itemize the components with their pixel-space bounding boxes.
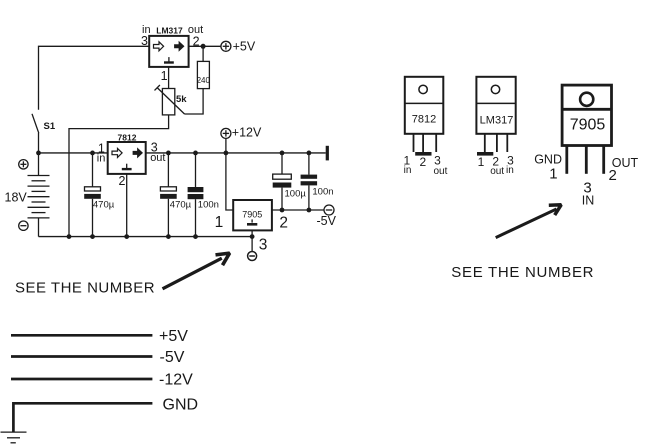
svg-text:+12V: +12V <box>232 126 262 140</box>
wire <box>38 133 40 153</box>
wire GND legend <box>13 403 152 432</box>
svg-text:100n: 100n <box>312 186 333 197</box>
svg-text:3: 3 <box>141 34 148 48</box>
wire -5V legend <box>11 355 152 358</box>
junction <box>36 151 41 156</box>
package 7812 <box>404 77 448 177</box>
junction <box>250 234 255 239</box>
capacitor C5 100n <box>301 153 334 210</box>
wire +5V legend <box>11 334 152 337</box>
wire <box>185 89 204 114</box>
arrow <box>163 253 230 289</box>
svg-text:2: 2 <box>419 155 426 169</box>
regulator U3 7905 <box>215 200 288 254</box>
svg-text:in: in <box>97 152 106 164</box>
junction <box>280 151 285 156</box>
terminal +5V <box>221 40 256 54</box>
package LM317 <box>476 77 515 177</box>
svg-text:out: out <box>490 166 504 177</box>
svg-text:7905: 7905 <box>242 210 262 220</box>
junction <box>124 234 129 239</box>
svg-text:out: out <box>434 166 448 177</box>
wire <box>69 115 169 237</box>
terminal -5V lower <box>248 252 257 261</box>
battery 18V <box>5 153 50 237</box>
junction <box>224 151 229 156</box>
svg-text:in: in <box>404 165 412 176</box>
svg-text:-12V: -12V <box>159 372 193 389</box>
ground <box>1 432 27 443</box>
svg-text:in: in <box>506 165 514 176</box>
resistor 240 <box>197 46 211 88</box>
switch S1 <box>32 114 56 133</box>
svg-text:GND: GND <box>534 153 562 167</box>
package 7905 <box>534 85 638 207</box>
svg-text:7812: 7812 <box>118 133 137 143</box>
wire <box>39 46 150 110</box>
svg-text:470µ: 470µ <box>170 199 192 210</box>
svg-text:IN: IN <box>582 194 595 208</box>
junction <box>201 44 206 49</box>
junction <box>307 208 312 213</box>
wire <box>39 236 253 238</box>
svg-text:1: 1 <box>478 155 485 169</box>
svg-text:1: 1 <box>215 214 224 231</box>
svg-text:470µ: 470µ <box>93 199 115 210</box>
svg-text:2: 2 <box>279 215 288 232</box>
capacitor C3 100n <box>188 153 219 237</box>
junction <box>193 234 198 239</box>
wire -12V legend <box>11 378 152 381</box>
wire <box>39 152 326 154</box>
svg-text:1: 1 <box>161 69 168 83</box>
junction <box>193 151 198 156</box>
svg-text:+5V: +5V <box>159 328 188 345</box>
svg-text:100n: 100n <box>198 199 219 210</box>
svg-text:SEE THE NUMBER: SEE THE NUMBER <box>451 264 594 281</box>
svg-text:out: out <box>150 152 165 164</box>
svg-text:5k: 5k <box>176 94 187 105</box>
wire <box>189 45 221 47</box>
terminal rail end bar <box>326 146 329 161</box>
junction <box>166 151 171 156</box>
svg-text:GND: GND <box>163 396 199 413</box>
svg-text:S1: S1 <box>44 121 56 132</box>
junction <box>67 234 72 239</box>
svg-text:2: 2 <box>609 167 617 184</box>
svg-text:LM317: LM317 <box>480 115 514 127</box>
svg-text:2: 2 <box>118 174 125 188</box>
regulator U1 7812 <box>97 133 166 188</box>
svg-text:1: 1 <box>549 165 557 182</box>
arrow <box>496 205 562 238</box>
svg-text:-5V: -5V <box>160 349 185 366</box>
regulator U2 LM317 <box>141 24 203 83</box>
junction <box>166 234 171 239</box>
svg-text:100µ: 100µ <box>285 189 307 200</box>
wire <box>272 209 324 211</box>
svg-text:LM317: LM317 <box>156 26 183 36</box>
junction <box>90 151 95 156</box>
potentiometer 5k <box>155 67 188 115</box>
svg-text:-5V: -5V <box>317 214 337 228</box>
svg-text:3: 3 <box>259 237 268 254</box>
svg-text:18V: 18V <box>5 190 28 204</box>
junction <box>90 234 95 239</box>
junction <box>280 208 285 213</box>
capacitor C1 470u <box>84 153 115 237</box>
svg-text:7905: 7905 <box>570 116 606 133</box>
terminal +12V <box>221 126 262 140</box>
capacitor C2 470u <box>160 153 192 237</box>
svg-text:240: 240 <box>197 76 211 85</box>
svg-text:SEE THE NUMBER: SEE THE NUMBER <box>15 279 155 296</box>
svg-text:7812: 7812 <box>412 113 436 125</box>
junction <box>307 151 312 156</box>
wire <box>251 230 253 251</box>
wire <box>226 138 233 210</box>
wire <box>126 174 128 237</box>
svg-text:+5V: +5V <box>233 40 256 54</box>
terminal -5V <box>317 205 337 228</box>
capacitor C4 100u <box>273 153 307 210</box>
